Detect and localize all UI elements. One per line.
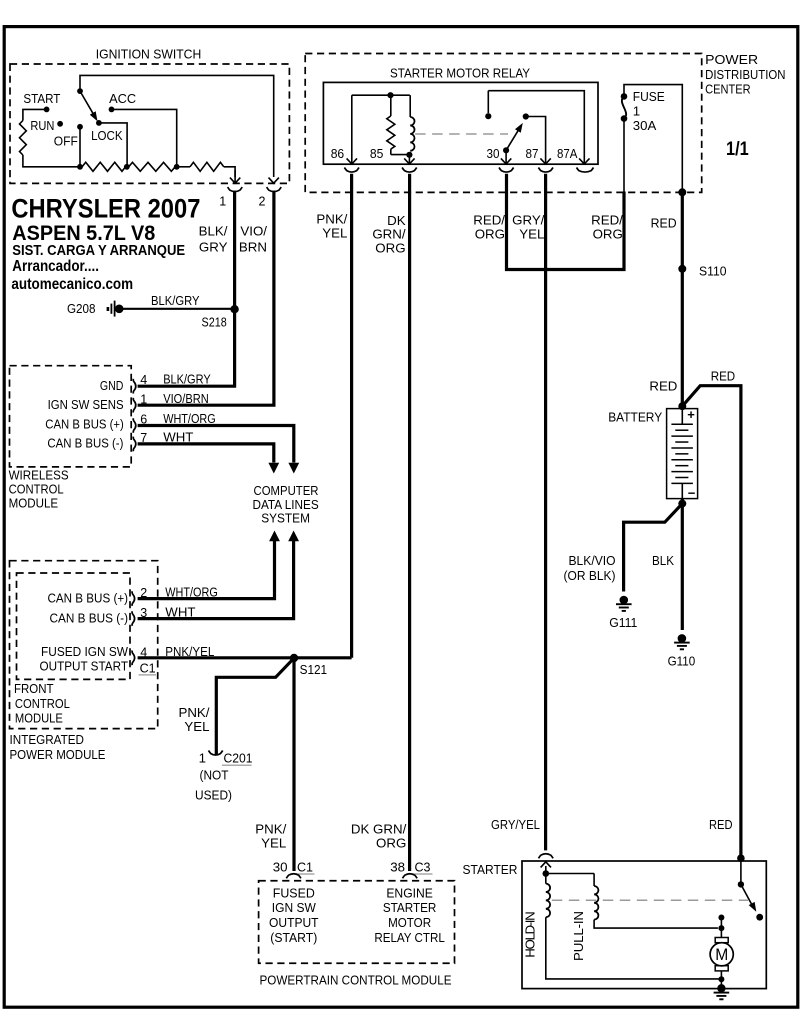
- motor top terminal: [718, 915, 724, 921]
- ignition switch blade: [80, 91, 95, 117]
- motor terminal link: [720, 918, 722, 929]
- svg-text:RED: RED: [709, 817, 733, 832]
- relay armature dashed link: [415, 133, 508, 135]
- svg-text:GRY: GRY: [199, 239, 228, 254]
- svg-text:PNK/: PNK/: [178, 705, 209, 720]
- svg-text:CAN B BUS (+): CAN B BUS (+): [48, 590, 129, 605]
- svg-text:WHT: WHT: [165, 605, 195, 620]
- svg-text:ORG: ORG: [593, 226, 623, 241]
- contact LOCK: [96, 120, 102, 126]
- svg-text:86: 86: [331, 146, 345, 161]
- svg-text:RED/: RED/: [473, 212, 505, 227]
- svg-text:CONTROL: CONTROL: [15, 696, 70, 711]
- pin 30 wire: [505, 150, 507, 163]
- starter armature dashed link: [552, 899, 748, 901]
- wire pivot to pin 2: [80, 75, 274, 177]
- switch pivot contact: [77, 88, 83, 94]
- svg-text:INTEGRATED: INTEGRATED: [10, 732, 85, 747]
- svg-text:2: 2: [140, 586, 147, 600]
- svg-text:VIO/: VIO/: [240, 223, 267, 238]
- wire GRY/YEL relay87 to starter: [544, 174, 547, 851]
- svg-text:LOCK: LOCK: [91, 128, 123, 143]
- svg-text:1: 1: [633, 103, 640, 118]
- resistor rail 3: [190, 162, 224, 171]
- splice S121: [290, 654, 298, 662]
- svg-text:85: 85: [370, 146, 384, 161]
- svg-text:RED: RED: [711, 369, 736, 384]
- svg-text:CENTER: CENTER: [705, 82, 751, 97]
- wire WHT pin7: [138, 444, 274, 463]
- svg-text:BLK: BLK: [652, 553, 674, 568]
- svg-text:DK GRN/: DK GRN/: [351, 821, 407, 836]
- svg-text:2: 2: [259, 194, 266, 208]
- contact ACC: [109, 107, 115, 113]
- svg-text:Arrancador....: Arrancador....: [12, 258, 99, 275]
- svg-text:FUSE: FUSE: [633, 89, 665, 104]
- FCM pin 4 arc: [132, 651, 135, 666]
- relay blade contact: [523, 113, 529, 119]
- wire RED/ORG relay30 to fuse: [507, 174, 625, 270]
- junction ACC-rail: [174, 164, 180, 170]
- relay coil branch: [409, 95, 411, 117]
- svg-text:87: 87: [526, 146, 539, 161]
- hold-in coil L1: [546, 884, 550, 918]
- svg-text:−: −: [688, 486, 696, 501]
- relay fixed contact: [485, 113, 491, 119]
- svg-text:+: +: [687, 407, 695, 422]
- svg-text:CONTROL: CONTROL: [9, 482, 64, 497]
- svg-text:VIO/BRN: VIO/BRN: [163, 391, 209, 406]
- wireless control module box: [10, 366, 132, 467]
- wire BLK battery to G110: [681, 499, 684, 630]
- svg-text:BLK/VIO: BLK/VIO: [569, 553, 616, 568]
- svg-text:WHT: WHT: [163, 430, 193, 445]
- starter coil junction: [543, 870, 550, 877]
- svg-text:30A: 30A: [633, 118, 657, 133]
- pin 85 connector arc: [402, 168, 417, 173]
- relay blade: [506, 128, 520, 151]
- svg-text:BLK/GRY: BLK/GRY: [151, 293, 200, 308]
- PCM pin 38 arc: [403, 874, 418, 879]
- wire RED battery-to-starter: [682, 386, 741, 858]
- svg-text:C1: C1: [297, 860, 313, 875]
- relay pin 85 junction: [406, 152, 412, 158]
- ignition switch module box: [10, 64, 289, 183]
- resistor ignition left: [20, 121, 27, 156]
- junction PDC RED: [678, 188, 686, 196]
- wire G208 to S218: [121, 308, 235, 310]
- svg-text:ACC: ACC: [109, 91, 136, 106]
- starter RED terminal: [737, 854, 745, 862]
- fuse loop wires: [624, 85, 682, 193]
- svg-text:CAN B BUS (+): CAN B BUS (+): [45, 417, 124, 432]
- svg-text:M: M: [715, 946, 728, 964]
- pull-in coil wire top: [593, 874, 595, 887]
- svg-text:YEL: YEL: [184, 719, 209, 734]
- wire PNK/YEL S121 to PCM: [292, 658, 295, 871]
- relay coil top junction: [387, 92, 393, 98]
- pin 87A arrow: [579, 158, 589, 164]
- wire VIO/BRN pin2 to WCM: [138, 191, 274, 406]
- starter ground terminal: [717, 984, 725, 992]
- svg-text:YEL: YEL: [261, 836, 286, 851]
- hold-in coil wire bottom: [546, 917, 722, 979]
- svg-text:GRN/: GRN/: [372, 227, 406, 242]
- front control module box: [17, 573, 131, 679]
- arrow WHT up (FCM): [288, 531, 299, 542]
- svg-text:FUSED: FUSED: [273, 885, 315, 900]
- svg-text:PNK/: PNK/: [316, 212, 347, 227]
- svg-text:ORG: ORG: [376, 836, 406, 851]
- pin 1 connector arc: [228, 187, 243, 192]
- wire resistor to bottom rail: [23, 155, 80, 167]
- svg-text:RED/: RED/: [591, 212, 623, 227]
- svg-text:G110: G110: [668, 653, 696, 668]
- fuse terminal bottom: [621, 115, 628, 122]
- pin 85 arrow: [408, 155, 410, 163]
- motor M1: [720, 928, 722, 937]
- svg-text:S121: S121: [300, 662, 328, 677]
- relay inner top wire: [352, 94, 410, 96]
- PCM pin 30 arc: [286, 874, 301, 879]
- svg-text:GRY/YEL: GRY/YEL: [491, 817, 540, 832]
- relay pin 30 junction: [503, 147, 509, 153]
- fuse terminal top: [621, 93, 628, 100]
- C201 connector arc: [209, 751, 223, 756]
- svg-text:(OR BLK): (OR BLK): [564, 568, 616, 583]
- starter motor relay box: [323, 82, 598, 164]
- WCM pin 4 arc: [133, 379, 136, 394]
- starter solenoid blade: [741, 884, 753, 906]
- resistor rail 1: [82, 162, 126, 171]
- svg-text:OUTPUT: OUTPUT: [269, 915, 319, 930]
- pin 1 arrow: [234, 170, 236, 183]
- integrated power module box: [10, 561, 158, 729]
- svg-text:1/1: 1/1: [726, 139, 749, 160]
- svg-text:DISTRIBUTION: DISTRIBUTION: [705, 67, 785, 82]
- pull-in coil wire bottom: [594, 920, 718, 929]
- pull-in coil L2: [594, 886, 598, 920]
- relay wire blade to 87: [526, 117, 546, 164]
- WCM pin 1 arc: [133, 398, 136, 413]
- starter ground: [714, 992, 730, 994]
- motor wire junction: [718, 925, 724, 931]
- svg-text:1: 1: [140, 393, 147, 407]
- arrow WHT/ORG up (FCM): [269, 531, 280, 542]
- starter solenoid contact: [756, 914, 763, 921]
- contact START: [44, 107, 50, 113]
- starter connector arc: [539, 854, 554, 859]
- svg-text:G111: G111: [609, 615, 637, 630]
- svg-text:4: 4: [140, 373, 147, 387]
- svg-text:BLK/: BLK/: [199, 223, 228, 238]
- svg-text:automecanico.com: automecanico.com: [11, 276, 133, 293]
- motor ground junction: [718, 976, 724, 982]
- svg-text:ENGINE: ENGINE: [386, 885, 433, 900]
- svg-text:1: 1: [219, 194, 226, 208]
- pin 87A connector arc: [577, 168, 594, 173]
- svg-text:G208: G208: [67, 301, 96, 316]
- svg-text:STARTER MOTOR RELAY: STARTER MOTOR RELAY: [390, 66, 530, 81]
- svg-text:STARTER: STARTER: [463, 862, 518, 877]
- svg-text:WHT/ORG: WHT/ORG: [163, 411, 216, 426]
- svg-text:USED): USED): [195, 788, 232, 803]
- wire RED fuse-to-battery: [681, 192, 684, 406]
- svg-text:BATTERY: BATTERY: [608, 410, 662, 425]
- svg-text:IGN SW SENS: IGN SW SENS: [48, 397, 124, 412]
- pin 87 arrow: [540, 158, 550, 164]
- svg-text:PULL-IN: PULL-IN: [571, 911, 586, 961]
- battery negative junction: [678, 500, 686, 508]
- svg-text:WHT/ORG: WHT/ORG: [165, 585, 218, 600]
- power distribution center box: [305, 54, 702, 193]
- starter box: [522, 861, 766, 989]
- svg-text:C1: C1: [140, 660, 156, 675]
- svg-text:IGNITION SWITCH: IGNITION SWITCH: [96, 47, 202, 62]
- wire rail segment: [177, 166, 190, 168]
- pin 2 arrow: [269, 178, 279, 184]
- wire S121 branch to C201: [216, 660, 292, 755]
- svg-text:1: 1: [199, 750, 206, 765]
- svg-text:POWER: POWER: [705, 52, 758, 67]
- relay coil bottom wire: [391, 154, 410, 156]
- svg-text:STARTER: STARTER: [383, 900, 437, 915]
- svg-text:WIRELESS: WIRELESS: [9, 468, 69, 483]
- starter solenoid pivot: [738, 881, 744, 887]
- arrow WHT/ORG down: [288, 463, 299, 474]
- svg-text:30: 30: [273, 860, 288, 875]
- starter solenoid wire: [740, 858, 742, 884]
- junction OFF-rail: [77, 164, 83, 170]
- svg-text:ORG: ORG: [475, 226, 505, 241]
- pin 30 arrow: [501, 158, 511, 164]
- relay switch common wire: [488, 91, 584, 164]
- pin 87 connector arc: [538, 168, 553, 173]
- svg-text:OUTPUT START: OUTPUT START: [40, 659, 129, 674]
- fuse F1 element: [622, 96, 626, 118]
- relay pin 86 wire: [351, 95, 353, 163]
- svg-text:GND: GND: [100, 378, 124, 393]
- contact OFF: [77, 124, 83, 130]
- starter pin arrow up: [545, 866, 547, 872]
- svg-text:CHRYSLER 2007: CHRYSLER 2007: [11, 194, 200, 224]
- wire LOCK to rail: [99, 123, 127, 167]
- svg-text:ORG: ORG: [375, 241, 405, 256]
- wire PNK/YEL relay 86 down: [350, 174, 353, 658]
- svg-text:C3: C3: [415, 860, 431, 875]
- powertrain control module box: [259, 881, 455, 964]
- pin 86 connector arc: [344, 168, 359, 173]
- svg-text:38: 38: [390, 860, 405, 875]
- svg-text:(NOT: (NOT: [200, 767, 229, 782]
- svg-text:SYSTEM: SYSTEM: [261, 511, 310, 526]
- motor ground wire: [720, 979, 722, 988]
- wire to pull-in coil: [546, 873, 594, 875]
- wire START to resistor: [23, 109, 47, 120]
- svg-text:S218: S218: [202, 314, 227, 329]
- wire BLK/GRY pin1 to WCM: [138, 191, 235, 387]
- svg-text:START: START: [23, 91, 60, 106]
- resistor rail 2: [129, 162, 176, 171]
- svg-text:30: 30: [487, 146, 500, 161]
- svg-text:PNK/: PNK/: [255, 821, 286, 836]
- svg-text:HOLD-IN: HOLD-IN: [522, 911, 537, 958]
- contact RUN: [57, 121, 63, 127]
- ground G111: [620, 596, 629, 605]
- svg-text:S110: S110: [699, 263, 727, 278]
- pin 2 connector arc: [267, 187, 282, 192]
- svg-text:BRN: BRN: [239, 239, 267, 254]
- svg-text:C201: C201: [224, 750, 253, 765]
- fuse output wire: [623, 119, 625, 193]
- wire WHT FCM pin3: [138, 541, 294, 619]
- pin 30 connector arc: [499, 168, 514, 173]
- svg-text:CAN B BUS (-): CAN B BUS (-): [50, 610, 129, 625]
- svg-text:COMPUTER: COMPUTER: [254, 483, 319, 498]
- svg-text:BLK/GRY: BLK/GRY: [163, 371, 211, 386]
- svg-text:RUN: RUN: [30, 118, 54, 133]
- svg-text:FRONT: FRONT: [14, 681, 54, 696]
- svg-text:POWERTRAIN CONTROL MODULE: POWERTRAIN CONTROL MODULE: [260, 972, 452, 987]
- svg-text:FUSED IGN SW: FUSED IGN SW: [41, 644, 128, 659]
- ground G208: [107, 307, 110, 311]
- wire WHT/ORG pin6: [138, 426, 294, 463]
- relay fixed contact wire: [487, 91, 489, 113]
- svg-text:CAN B BUS (-): CAN B BUS (-): [47, 436, 123, 451]
- FCM pin 3 arc: [132, 611, 135, 626]
- svg-text:IGN SW: IGN SW: [272, 900, 316, 915]
- splice S218: [230, 305, 238, 313]
- junction LOCK-rail: [124, 164, 130, 170]
- svg-text:87A: 87A: [557, 146, 578, 161]
- svg-text:OFF: OFF: [54, 134, 78, 149]
- svg-text:RED: RED: [651, 215, 677, 230]
- svg-text:RED: RED: [649, 379, 677, 394]
- wire WHT/ORG FCM pin2: [138, 541, 275, 599]
- svg-text:YEL: YEL: [322, 226, 347, 241]
- arrow WHT down: [268, 463, 279, 474]
- svg-text:YEL: YEL: [519, 226, 544, 241]
- svg-text:3: 3: [140, 606, 147, 620]
- svg-text:GRY/: GRY/: [512, 212, 545, 227]
- wire BLK/VIO battery to G111: [624, 504, 683, 592]
- WCM pin 6 arc: [133, 418, 136, 433]
- wire PNK/YEL FCM pin4 to relay86: [138, 656, 352, 659]
- svg-text:MOTOR: MOTOR: [388, 915, 431, 930]
- wire OFF down: [79, 127, 81, 167]
- FCM pin 2 arc: [132, 591, 135, 606]
- relay resistor branch: [390, 95, 392, 116]
- battery B1: [667, 409, 698, 499]
- svg-text:SIST. CARGA Y ARRANQUE: SIST. CARGA Y ARRANQUE: [12, 242, 185, 259]
- svg-text:MODULE: MODULE: [15, 710, 63, 725]
- svg-text:RELAY CTRL: RELAY CTRL: [374, 930, 445, 945]
- hold-in coil wire top: [545, 874, 547, 884]
- svg-text:(START): (START): [270, 930, 317, 945]
- wire rail to pin 1: [224, 167, 235, 177]
- wire ACC to rail: [112, 109, 177, 166]
- splice S110: [678, 265, 686, 273]
- WCM pin 7 arc: [133, 437, 136, 452]
- pin 86 arrow: [347, 158, 357, 164]
- ground G110: [678, 634, 687, 643]
- svg-text:MODULE: MODULE: [9, 496, 59, 511]
- svg-text:POWER MODULE: POWER MODULE: [10, 747, 106, 762]
- battery positive junction: [678, 402, 686, 410]
- wire DK GRN/ORG relay85 to PCM: [408, 174, 411, 871]
